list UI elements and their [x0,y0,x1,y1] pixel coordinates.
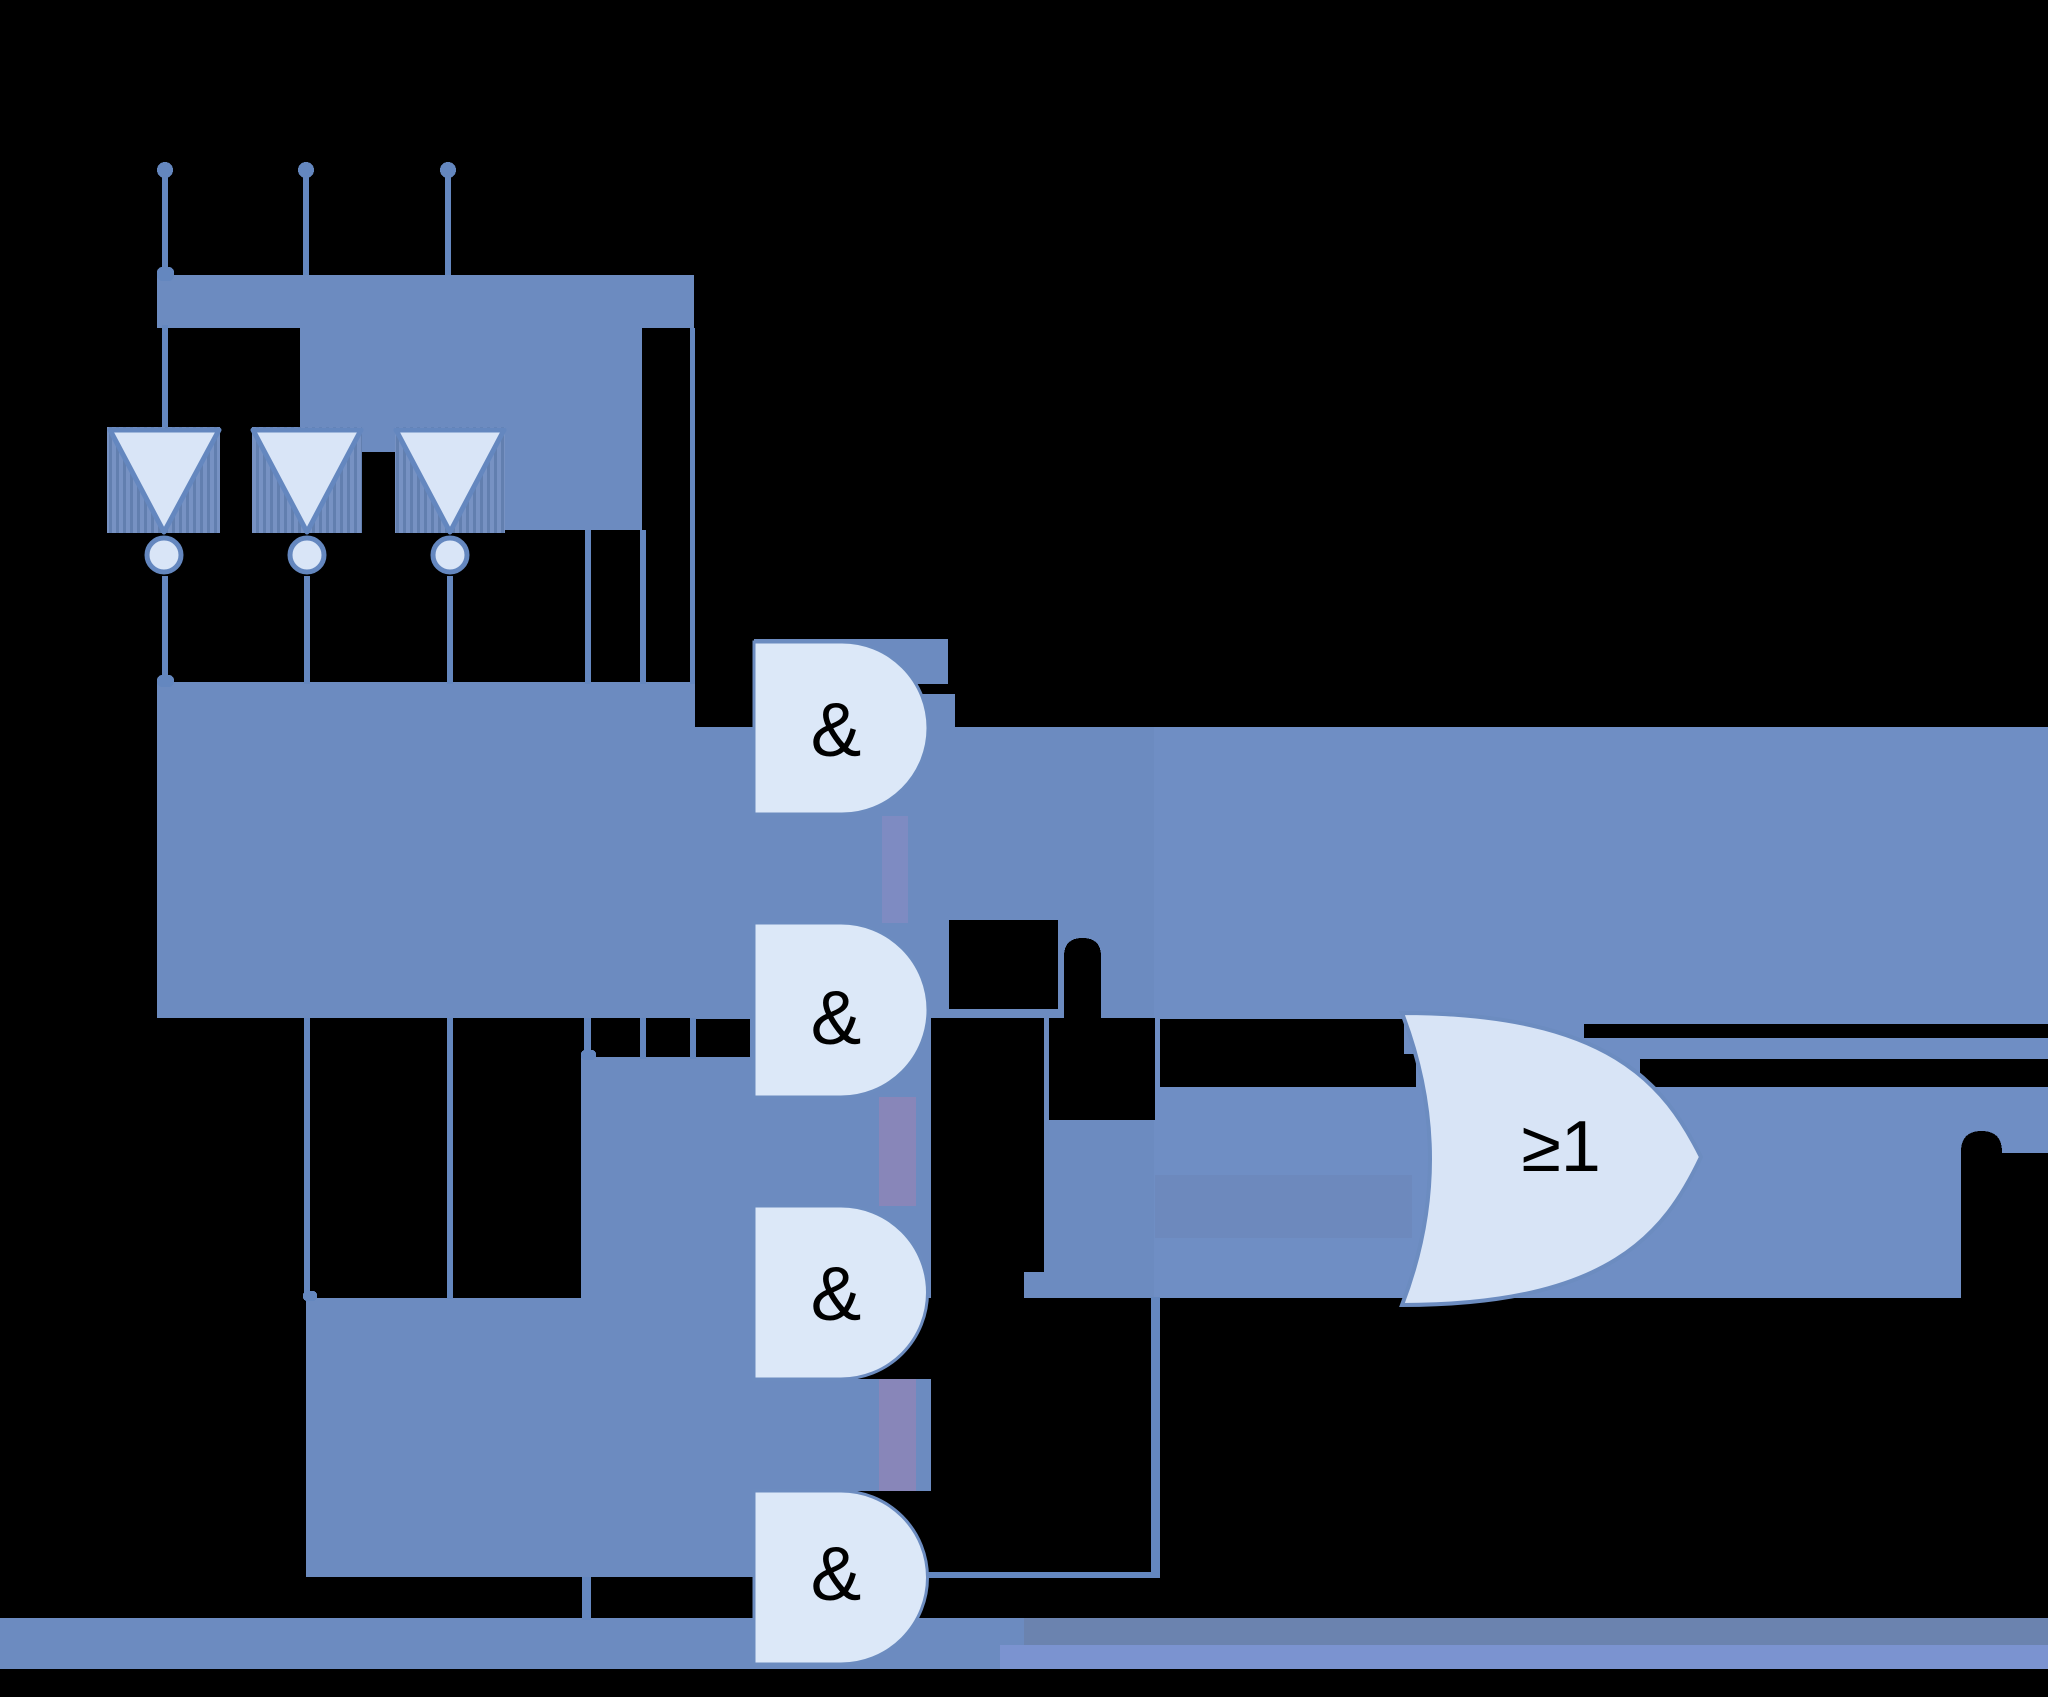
wire: gate4 output horizontal [928,1572,1160,1578]
black gap: right of gate2 upper [949,920,1058,1009]
AND gate 4 [754,1491,927,1664]
black gap: below gate2 stub [931,1018,1044,1272]
wire: inverter2 output [304,576,310,684]
violet overlap column between gate2-3 [879,1097,916,1206]
wire: input3 stem [445,171,451,275]
NOT gate 1 [110,430,219,572]
net band: inverter output bus (band2) [157,682,695,1018]
wire: x692 crossing gap2 [690,1018,696,1059]
terminal: input 2 [298,162,314,178]
black gap: dash row left of gate1 column [695,1019,750,1057]
violet overlap column between gate1-2 [882,816,908,923]
inverter 3 striped box [395,427,505,533]
net band: gate2 output stub [928,920,949,1010]
subtle darker stripe region left of OR [1155,1175,1412,1238]
net band: bottom bus bright overlay [1024,1618,2048,1645]
black gap: output hook [1961,1131,2002,1298]
junction: inverter1 at band2 [157,675,174,687]
black gap: bar right of OR lower [1640,1059,2048,1087]
AND gate 3 [754,1206,927,1379]
OR gate [1402,1013,1701,1305]
black gap: long bar left of OR [1160,1019,1404,1054]
net band: OR region left [695,727,1154,1298]
svg-text:&: & [811,1532,862,1617]
terminal: input 3 [440,162,456,178]
wire: x588 crossing gap2 [584,1018,591,1059]
svg-text:&: & [811,1252,862,1337]
inverter 1 striped box [107,427,220,533]
inverter 2 striped box [252,427,362,533]
wire: input1 stem [162,171,168,275]
wire: gate4 output vertical up [1151,1297,1160,1578]
net band: gate1 top sliver [754,639,948,684]
AND gate 2 [754,923,928,1097]
wire: inverter3 output [447,576,453,684]
net band: AND4 input (band4) [306,1298,592,1577]
junction: band4 top left [303,1291,317,1301]
net band: OR region right [1154,727,2048,1298]
wire: x642 from band B2b down [640,530,646,684]
svg-text:&: & [811,976,862,1061]
wire: inverter1 output [162,576,168,684]
wire: inverter3 net down [447,1018,453,1299]
wire: direct line C (x692) [690,328,695,684]
svg-text:≥1: ≥1 [1521,1107,1601,1187]
net band: input bus top [157,275,694,328]
AND gate 1 [754,642,928,814]
NOT gate 2 [253,430,361,572]
black gap: mid column [1049,1018,1155,1120]
NOT gate 3 [396,430,504,572]
net band: bottom bus [0,1618,2048,1669]
wire: inverter2 net down [304,1018,310,1299]
net band: AND input column (band3) [581,1057,756,1577]
black gap tongue right of gate2 [1064,938,1101,1019]
black gap: thin bar right of OR top [1584,1024,2048,1038]
net band: below bus right [505,325,642,530]
net band: gate1 output stub [918,694,955,728]
violet overlap column between gate3-4 [879,1379,916,1491]
net band: between gates 3-4 backdrop [750,1379,931,1491]
wire: x588 crossing gap3 [582,1577,591,1620]
wire: direct line B (x588) [585,530,591,684]
wire: input2 stem [303,171,309,275]
wire: inverter1 input [162,325,168,435]
wire: x642 crossing gap2 [640,1018,646,1059]
net band: below bus mid [300,325,505,452]
terminal: input 1 [157,162,173,178]
junction: band3 top left [581,1050,596,1060]
svg-text:&: & [811,688,862,773]
junction: input1 at bus [157,267,174,281]
